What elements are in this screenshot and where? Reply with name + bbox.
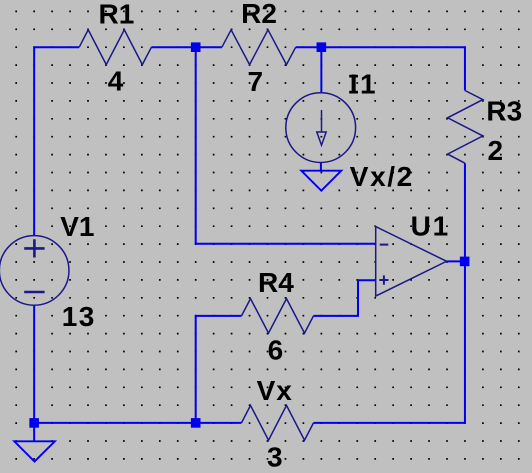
svg-text:6: 6 [268, 334, 284, 365]
wire top-left corner: V1 top to R1 left [34, 47, 79, 236]
svg-text:R3: R3 [486, 96, 522, 127]
wire I1 top lead [320, 47, 322, 93]
wire I1 bottom lead to ground [320, 162, 322, 170]
svg-text:13: 13 [62, 301, 96, 332]
resistor R2 [222, 30, 296, 65]
ground under I1 [301, 171, 341, 191]
op-amp plus input mark [379, 275, 388, 284]
svg-text:7: 7 [248, 66, 264, 97]
junction node bottom-mid [191, 418, 201, 428]
resistor R1 [79, 30, 151, 65]
junction node ground-left [29, 418, 39, 428]
ground left [14, 441, 55, 461]
svg-text:Vx: Vx [257, 375, 293, 406]
resistor Vx [242, 405, 314, 440]
svg-text:R2: R2 [241, 0, 277, 29]
resistor R4 [242, 299, 314, 334]
junction node N002 [317, 42, 327, 52]
svg-text:R4: R4 [258, 267, 294, 298]
svg-text:Vx/2: Vx/2 [350, 161, 414, 192]
svg-text:2: 2 [488, 135, 504, 166]
wire R2 right to top-right corner down to R3 top [296, 47, 465, 90]
wire bottom left run to Vx left [34, 422, 241, 424]
svg-text:3: 3 [267, 441, 283, 472]
wire R4 left lead down to bottom node [196, 316, 242, 423]
svg-text:V1: V1 [60, 211, 94, 242]
current source I1 circle [286, 93, 356, 163]
wire V1 bottom down to ground node [33, 305, 35, 441]
svg-text:U1: U1 [411, 210, 450, 241]
svg-text:I1: I1 [350, 68, 378, 99]
wire node N001 down and right to op-amp inverting input [196, 47, 376, 244]
op-amp minus input mark [380, 244, 389, 246]
voltage source V1 circle [0, 236, 69, 306]
I1 arrow head [317, 132, 326, 145]
I1 arrow shaft [321, 110, 323, 132]
wire op-amp non-inverting input to R4 right [314, 280, 376, 316]
junction node output [460, 257, 470, 267]
wire op-amp output to right rail [447, 260, 465, 262]
svg-text:4: 4 [108, 65, 124, 96]
V1 plus sign [24, 239, 44, 257]
wire R1 right to R2 left (through node N001) [151, 46, 222, 48]
junction node N001 [191, 42, 201, 52]
V1 minus sign [24, 291, 44, 294]
wire R3 bottom down right side to bottom-right corner to Vx right [314, 163, 465, 423]
op-amp U1 triangle [376, 227, 447, 297]
resistor R3 [448, 91, 483, 164]
svg-text:R1: R1 [99, 0, 135, 29]
